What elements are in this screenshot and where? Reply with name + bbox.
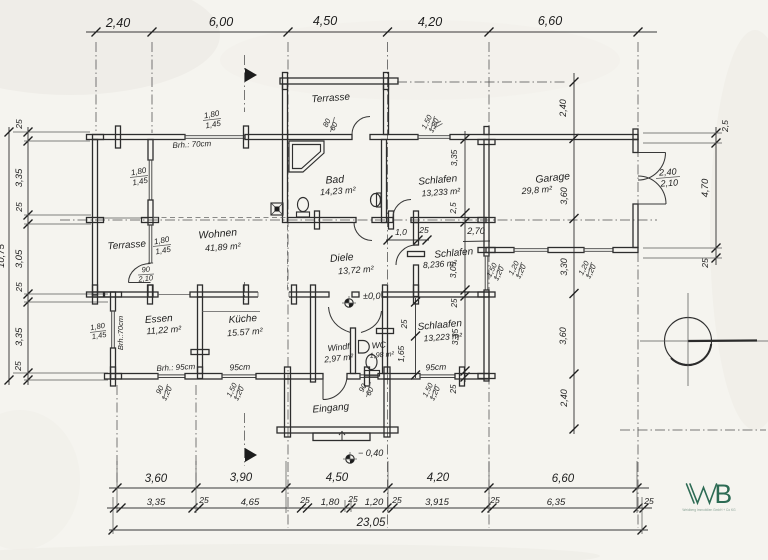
- svg-text:Weidberg Immobilien GmbH + Co: Weidberg Immobilien GmbH + Co KG: [682, 508, 736, 512]
- svg-text:3,60: 3,60: [145, 473, 168, 485]
- svg-text:4,50: 4,50: [326, 472, 349, 484]
- svg-text:10,75: 10,75: [0, 243, 7, 267]
- svg-text:4,20: 4,20: [427, 472, 450, 484]
- svg-text:25: 25: [700, 258, 710, 269]
- svg-text:6,60: 6,60: [552, 473, 575, 485]
- svg-text:23,05: 23,05: [356, 517, 386, 529]
- svg-text:25: 25: [347, 494, 358, 504]
- svg-text:6,00: 6,00: [209, 15, 233, 29]
- svg-text:25: 25: [489, 495, 500, 505]
- svg-text:25: 25: [449, 384, 458, 394]
- svg-text:25: 25: [198, 495, 209, 505]
- svg-text:4,65: 4,65: [241, 497, 260, 508]
- svg-text:3,35: 3,35: [14, 327, 25, 346]
- svg-text:3,05: 3,05: [14, 249, 25, 268]
- svg-text:25: 25: [13, 361, 23, 372]
- svg-text:6,35: 6,35: [547, 497, 566, 508]
- svg-text:3,35: 3,35: [14, 168, 25, 187]
- svg-text:3,35: 3,35: [147, 497, 166, 508]
- svg-text:2,5: 2,5: [449, 202, 458, 215]
- svg-text:1,65: 1,65: [396, 345, 406, 362]
- svg-text:1,98 m²: 1,98 m²: [369, 349, 395, 360]
- svg-text:Diele: Diele: [330, 252, 355, 265]
- svg-text:1,0: 1,0: [395, 227, 407, 237]
- svg-text:1,20: 1,20: [365, 497, 384, 508]
- svg-text:25: 25: [14, 202, 24, 213]
- svg-text:4,70: 4,70: [700, 178, 711, 197]
- svg-text:2,10: 2,10: [659, 177, 678, 188]
- svg-text:95cm: 95cm: [229, 361, 250, 372]
- svg-text:− 0,40: − 0,40: [358, 448, 383, 458]
- svg-text:3,30: 3,30: [559, 258, 569, 276]
- svg-text:95cm: 95cm: [425, 361, 446, 372]
- svg-text:25: 25: [450, 298, 459, 308]
- svg-text:3,60: 3,60: [558, 327, 568, 345]
- svg-text:±0,0: ±0,0: [363, 291, 380, 301]
- svg-text:2,40: 2,40: [559, 389, 569, 408]
- svg-text:2,40: 2,40: [105, 16, 130, 30]
- svg-text:2,70: 2,70: [466, 226, 485, 236]
- svg-text:4,20: 4,20: [418, 15, 442, 29]
- svg-text:25: 25: [14, 282, 24, 293]
- svg-text:3,90: 3,90: [230, 472, 253, 484]
- svg-text:3,60: 3,60: [559, 187, 569, 205]
- svg-text:25: 25: [400, 319, 409, 329]
- svg-text:25: 25: [14, 119, 24, 130]
- svg-text:2,40: 2,40: [658, 166, 677, 177]
- svg-text:2,10: 2,10: [137, 273, 154, 284]
- svg-text:25: 25: [643, 496, 654, 506]
- svg-text:25: 25: [418, 225, 429, 235]
- svg-text:3,35: 3,35: [449, 149, 459, 166]
- svg-text:25: 25: [391, 495, 402, 505]
- svg-text:1,80: 1,80: [321, 497, 340, 508]
- svg-text:2,40: 2,40: [558, 99, 568, 118]
- svg-text:3,915: 3,915: [425, 497, 449, 508]
- svg-text:6,60: 6,60: [538, 14, 562, 28]
- svg-text:Küche: Küche: [228, 313, 257, 326]
- svg-text:4,50: 4,50: [313, 14, 337, 28]
- svg-text:25: 25: [299, 495, 310, 505]
- svg-text:2,5: 2,5: [720, 120, 730, 133]
- svg-text:Brh.:70cm: Brh.:70cm: [116, 316, 125, 350]
- svg-text:B: B: [715, 479, 733, 509]
